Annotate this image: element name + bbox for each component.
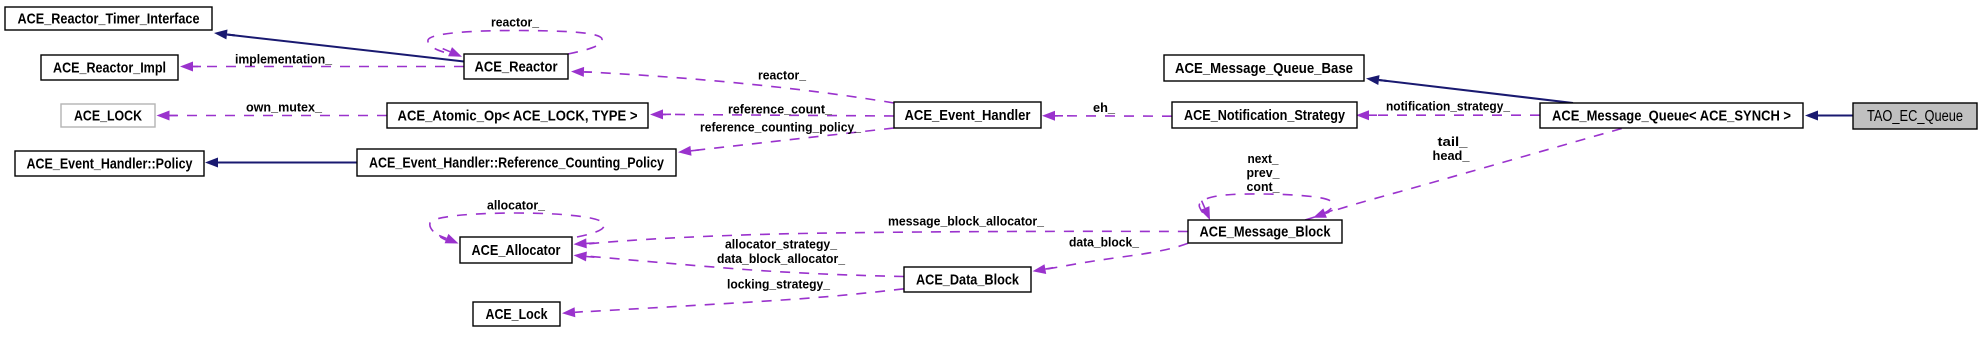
svg-text:head_: head_ <box>1433 148 1471 163</box>
class box ACE_LOCK <box>61 104 155 127</box>
collaboration edge implementation_ (ACE_Reactor to ACE_Reactor_Impl) <box>193 66 464 68</box>
collaboration edge eh_ (ACE_Notification_Strategy to ACE_Event_Handler) <box>1055 115 1172 117</box>
svg-text:TAO_EC_Queue: TAO_EC_Queue <box>1867 108 1963 125</box>
svg-text:locking_strategy_: locking_strategy_ <box>727 277 831 292</box>
inheritance arrow Reference_Counting_Policy to ACE_Event_Handler::Policy <box>218 162 357 164</box>
class box ACE_Reactor_Timer_Interface <box>5 7 212 30</box>
svg-text:eh_: eh_ <box>1093 100 1116 115</box>
svg-text:ACE_Allocator: ACE_Allocator <box>472 242 561 259</box>
svg-text:ACE_Reactor_Timer_Interface: ACE_Reactor_Timer_Interface <box>18 11 200 28</box>
svg-text:ACE_LOCK: ACE_LOCK <box>74 108 142 125</box>
svg-text:ACE_Reactor_Impl: ACE_Reactor_Impl <box>53 60 166 77</box>
svg-text:ACE_Message_Block: ACE_Message_Block <box>1200 224 1332 241</box>
class box ACE_Notification_Strategy <box>1172 102 1357 128</box>
class box ACE_Event_Handler <box>894 102 1041 128</box>
class box ACE_Reactor_Impl <box>41 55 178 80</box>
collaboration edge reference_count_ (ACE_Event_Handler to ACE_Atomic_Op) <box>663 114 894 116</box>
svg-text:reference_counting_policy_: reference_counting_policy_ <box>700 120 862 135</box>
inheritance arrow ACE_Message_Queue to ACE_Message_Queue_Base <box>1379 80 1573 103</box>
collaboration self-loop next_ prev_ cont_ on ACE_Message_Block <box>1199 194 1333 220</box>
svg-text:allocator_strategy_: allocator_strategy_ <box>725 237 838 252</box>
collaboration edge data_block_ (ACE_Message_Block to ACE_Data_Block) <box>1046 243 1189 269</box>
svg-text:ACE_Atomic_Op< ACE_LOCK, TYPE: ACE_Atomic_Op< ACE_LOCK, TYPE > <box>398 108 638 125</box>
svg-text:reactor_: reactor_ <box>758 68 807 83</box>
class box ACE_Message_Queue_Base <box>1164 55 1364 81</box>
collaboration edge tail_ head_ (ACE_Message_Queue to ACE_Message_Block) <box>1326 129 1622 214</box>
class box ACE_Lock <box>473 302 560 326</box>
svg-text:reactor_: reactor_ <box>491 15 540 30</box>
collaboration edge own_mutex_ (ACE_Atomic_Op to ACE_LOCK) <box>170 115 388 117</box>
svg-text:data_block_: data_block_ <box>1069 235 1140 250</box>
svg-text:cont_: cont_ <box>1247 179 1281 194</box>
svg-text:own_mutex_: own_mutex_ <box>246 100 323 115</box>
svg-text:next_: next_ <box>1248 151 1280 166</box>
class box ACE_Event_Handler::Policy <box>15 151 204 176</box>
collaboration edge locking_strategy_ (ACE_Data_Block to ACE_Lock) <box>588 289 904 312</box>
class box ACE_Allocator <box>460 237 572 263</box>
class box ACE_Reactor <box>464 54 568 79</box>
svg-text:message_block_allocator_: message_block_allocator_ <box>888 214 1045 229</box>
class box ACE_Atomic_Op <box>387 103 648 128</box>
collaboration edge allocator_strategy_ data_block_allocator_ (ACE_Data_Block to ACE_Allocator) <box>587 256 904 276</box>
class box ACE_Message_Block <box>1188 220 1342 243</box>
svg-text:ACE_Reactor: ACE_Reactor <box>475 59 558 76</box>
svg-text:tail_: tail_ <box>1438 134 1469 149</box>
collaboration edge notification_strategy_ (ACE_Message_Queue to ACE_Notification_Strategy) <box>1369 114 1540 116</box>
inheritance arrow ACE_Reactor to ACE_Reactor_Timer_Interface <box>227 35 464 62</box>
svg-text:ACE_Notification_Strategy: ACE_Notification_Strategy <box>1184 107 1346 124</box>
class box ACE_Data_Block <box>904 267 1031 292</box>
svg-text:ACE_Data_Block: ACE_Data_Block <box>916 272 1020 289</box>
collaboration edge message_block_allocator_ (ACE_Message_Block to ACE_Allocator) <box>587 231 1188 244</box>
svg-text:ACE_Event_Handler::Policy: ACE_Event_Handler::Policy <box>27 156 194 173</box>
svg-text:ACE_Event_Handler: ACE_Event_Handler <box>905 107 1031 124</box>
collaboration self-loop reactor_ on ACE_Reactor <box>428 31 602 55</box>
class box TAO_EC_Queue (current class) <box>1853 103 1977 129</box>
svg-text:allocator_: allocator_ <box>487 198 546 213</box>
collaboration self-loop allocator_ on ACE_Allocator <box>430 213 604 240</box>
class box ACE_Event_Handler::Reference_Counting_Policy <box>357 149 676 176</box>
svg-text:implementation_: implementation_ <box>235 52 333 67</box>
svg-text:ACE_Message_Queue_Base: ACE_Message_Queue_Base <box>1175 60 1353 77</box>
svg-text:prev_: prev_ <box>1247 165 1281 180</box>
svg-text:ACE_Event_Handler::Reference_C: ACE_Event_Handler::Reference_Counting_Po… <box>369 155 665 172</box>
collaboration edge reference_counting_policy_ (ACE_Event_Handler to Reference_Counting_Policy) <box>691 128 894 151</box>
inheritance arrow TAO_EC_Queue to ACE_Message_Queue <box>1818 115 1853 117</box>
collaboration edge reactor_ (ACE_Event_Handler to ACE_Reactor) <box>585 72 895 103</box>
svg-text:notification_strategy_: notification_strategy_ <box>1386 99 1511 114</box>
class box ACE_Message_Queue <box>1540 103 1803 128</box>
svg-text:data_block_allocator_: data_block_allocator_ <box>717 251 846 266</box>
svg-text:reference_count_: reference_count_ <box>728 102 833 117</box>
svg-text:ACE_Message_Queue< ACE_SYNCH >: ACE_Message_Queue< ACE_SYNCH > <box>1552 108 1791 125</box>
svg-text:ACE_Lock: ACE_Lock <box>486 306 549 323</box>
